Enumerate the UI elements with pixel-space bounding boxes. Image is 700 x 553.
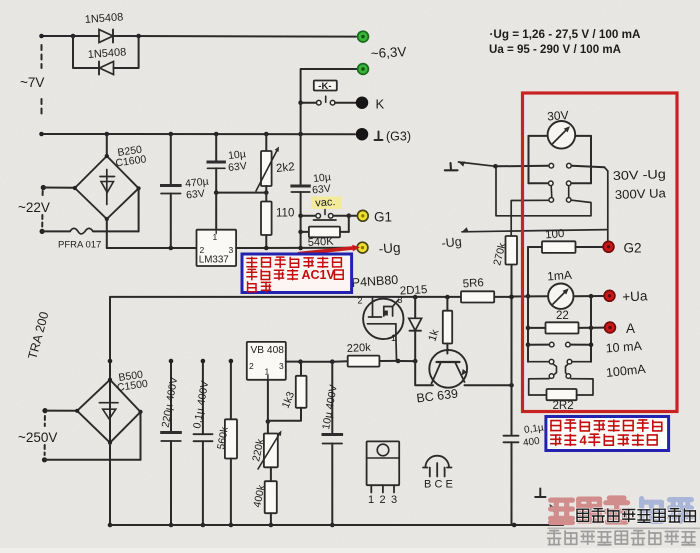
node 1k3 top bbox=[298, 359, 303, 364]
resistor 1k bbox=[446, 297, 448, 311]
wire 10u node to LM337 bbox=[215, 193, 217, 230]
svg-text:2: 2 bbox=[249, 361, 254, 371]
wire HV plus rail bbox=[110, 297, 461, 525]
capacitor C 0,1u hv bbox=[504, 435, 519, 437]
node relay branch bbox=[298, 100, 303, 105]
wire sw1 row3 left bbox=[511, 200, 548, 236]
svg-text:(G3): (G3) bbox=[386, 130, 411, 144]
meter M1 30V box bbox=[529, 135, 548, 137]
terminal A bbox=[605, 322, 616, 333]
svg-text:~22V: ~22V bbox=[18, 200, 50, 215]
capacitor C 10u vac bbox=[300, 134, 302, 185]
ground symbol bottom bbox=[535, 496, 545, 498]
node diode branch left bbox=[71, 34, 76, 39]
svg-text:3: 3 bbox=[229, 245, 234, 255]
red arrow to -Ug bbox=[299, 248, 354, 254]
wire -Ug rail bbox=[236, 247, 355, 249]
capacitor C 220u 400V bbox=[170, 361, 172, 431]
svg-text:-K-: -K- bbox=[318, 81, 331, 92]
node adj bbox=[266, 419, 271, 424]
terminal -Ug bbox=[357, 242, 368, 253]
terminal K bbox=[357, 97, 368, 108]
diode D1 1N5408 bbox=[99, 30, 113, 43]
wire 2R2 right bbox=[571, 379, 593, 395]
node 560k bottom bbox=[229, 523, 234, 528]
svg-text:30V: 30V bbox=[547, 108, 569, 123]
source ~7V dashed lead bbox=[41, 45, 43, 68]
svg-text:LM337: LM337 bbox=[199, 255, 229, 266]
svg-text:~6,3V: ~6,3V bbox=[370, 44, 406, 61]
wire filament top rail bbox=[42, 35, 100, 37]
switch contacts row3 lower bbox=[549, 374, 554, 379]
svg-text:E: E bbox=[446, 479, 453, 491]
switch contacts row2 upper bbox=[549, 181, 554, 186]
node 10u400 bottom bbox=[330, 523, 335, 528]
switch S1 G1 bbox=[301, 215, 316, 217]
potentiometer 220k bbox=[267, 422, 269, 434]
svg-text:63V: 63V bbox=[228, 160, 248, 174]
node col left top bbox=[526, 294, 531, 299]
wire bridge B500 minus bbox=[109, 443, 111, 525]
watermark underline bbox=[548, 527, 700, 529]
ground arrow bbox=[551, 507, 563, 526]
node hv minus left bbox=[108, 523, 113, 528]
svg-text:2: 2 bbox=[200, 245, 205, 255]
wire G1 lead bbox=[349, 215, 356, 217]
svg-text:63V: 63V bbox=[186, 188, 206, 202]
node 110 at -Ug bbox=[264, 246, 269, 251]
node 220u top bbox=[169, 359, 174, 364]
svg-text:10 mA: 10 mA bbox=[605, 339, 643, 356]
resistor R 540K bbox=[301, 231, 309, 233]
wire node to 10u400 bbox=[301, 361, 333, 363]
node 10u400 top bbox=[330, 359, 335, 364]
wire 250V top lead bbox=[45, 410, 77, 412]
svg-text:300V Ua: 300V Ua bbox=[615, 186, 666, 202]
transistor Q2 BC639 bbox=[429, 350, 467, 388]
switch contacts row3 upper bbox=[549, 198, 554, 203]
package BCE pinout bbox=[425, 456, 449, 468]
wire 270k to 5R6 node bbox=[510, 265, 512, 297]
svg-text:AC1V: AC1V bbox=[302, 268, 336, 282]
svg-text:63V: 63V bbox=[312, 183, 332, 197]
wire hv sense column bbox=[511, 265, 513, 435]
node 10u bottom bbox=[214, 190, 219, 195]
svg-text:30V -Ug: 30V -Ug bbox=[613, 167, 667, 183]
wire 2R2 left bbox=[529, 379, 549, 395]
wire hv ground rail bbox=[110, 524, 563, 526]
wire 6.3V lower bbox=[301, 69, 357, 134]
wire 250V bottom lead bbox=[45, 459, 141, 461]
nodes B500 vertices bbox=[108, 378, 112, 382]
svg-text:100: 100 bbox=[545, 228, 565, 242]
resistor 560k bbox=[230, 361, 232, 419]
node 0,1u bottom bbox=[201, 523, 206, 528]
node switch-G1 bbox=[347, 213, 352, 218]
svg-text:~250V: ~250V bbox=[18, 430, 57, 445]
svg-text:G2: G2 bbox=[624, 241, 642, 256]
red frame display section bbox=[523, 93, 678, 412]
wire ground rail G3 bbox=[42, 133, 356, 135]
watermark dianzizhizuo bbox=[576, 509, 578, 521]
svg-text:~7V: ~7V bbox=[20, 75, 44, 90]
annotation box meters bbox=[546, 417, 669, 451]
node filament left bbox=[39, 34, 44, 39]
svg-text:·Ug = 1,26 - 27,5 V / 100 mA: ·Ug = 1,26 - 27,5 V / 100 mA bbox=[490, 27, 641, 41]
switch contacts row2 lower bbox=[549, 359, 554, 364]
resistor 1k3 bbox=[300, 362, 302, 376]
potentiometer 2k2 bbox=[265, 134, 267, 151]
node rail-bridge bbox=[105, 132, 110, 137]
node 2D15 top bbox=[413, 295, 418, 300]
nodes B250 vertices bbox=[105, 154, 109, 158]
node 220u bottom bbox=[169, 523, 174, 528]
node sw2 row1 right bbox=[589, 342, 594, 347]
resistor 400k bbox=[270, 467, 272, 481]
wire sw1 row1 bbox=[496, 165, 549, 168]
node col left row1 bbox=[526, 342, 531, 347]
watermark black text halo bbox=[576, 509, 579, 521]
regulator U1 LM337 bbox=[197, 230, 237, 266]
node hv gnd mid bbox=[512, 523, 517, 528]
svg-text:+Ua: +Ua bbox=[622, 288, 648, 304]
node 1k top bbox=[445, 295, 450, 300]
node 470u minus bbox=[169, 246, 174, 251]
node rail-relay bbox=[298, 132, 303, 137]
resistor 100 bbox=[528, 246, 542, 248]
svg-text:1: 1 bbox=[213, 232, 218, 242]
wire VB408 adj bbox=[267, 380, 269, 422]
svg-text:vac.: vac. bbox=[315, 196, 336, 209]
node 1mA left bbox=[509, 295, 514, 300]
svg-text:PFRA 017: PFRA 017 bbox=[58, 240, 101, 251]
svg-text:3: 3 bbox=[391, 494, 397, 506]
watermark shepin gray bbox=[553, 531, 555, 545]
source ~250V terminals bbox=[42, 408, 47, 413]
resistor 270k bbox=[506, 236, 518, 265]
meter M2 1mA bbox=[548, 284, 573, 309]
regulator U2 VB408 bbox=[247, 342, 286, 380]
wire VB408 out bbox=[286, 361, 301, 363]
label gnd select bbox=[445, 169, 458, 171]
relay coil K bbox=[314, 81, 337, 91]
fuse PFRA017 bbox=[42, 230, 70, 232]
wire meter col right bbox=[590, 296, 592, 362]
terminal G3 bbox=[357, 129, 368, 140]
svg-text:K: K bbox=[376, 97, 385, 112]
svg-text:4: 4 bbox=[580, 433, 588, 448]
svg-text:5R6: 5R6 bbox=[462, 277, 484, 290]
wire diode to emitter bbox=[415, 361, 433, 385]
meter M1 30V bbox=[548, 121, 576, 149]
node vac at -Ug bbox=[298, 246, 303, 251]
node collector bbox=[509, 383, 514, 388]
wire 10u to 2k2 bottom bbox=[216, 192, 266, 194]
node 5R6 right bbox=[509, 295, 514, 300]
svg-text:1mA: 1mA bbox=[547, 268, 573, 284]
node 0,1u top bbox=[201, 359, 206, 364]
node hv rail mid bbox=[108, 359, 113, 364]
node rail-10u bbox=[214, 132, 219, 137]
switch links upper bbox=[550, 186, 553, 198]
wire 22V to bridge bbox=[43, 187, 75, 189]
switch links lower bbox=[553, 364, 557, 375]
svg-text:VB 408: VB 408 bbox=[251, 345, 285, 356]
resistor 22 bbox=[528, 327, 546, 329]
wire gate node bbox=[332, 360, 347, 363]
node gate bbox=[396, 359, 401, 364]
watermark yidituo red bbox=[551, 498, 573, 503]
wire 1mA row bbox=[511, 296, 513, 298]
resistor 5R6 bbox=[461, 291, 494, 302]
capacitor C 0,1u 400V bbox=[202, 361, 204, 434]
capacitor C 10u 400V bbox=[331, 362, 333, 433]
switch lever gnd bbox=[459, 162, 466, 167]
svg-text:110: 110 bbox=[276, 208, 294, 220]
svg-text:2: 2 bbox=[380, 494, 386, 506]
diode D2 1N5408 bbox=[100, 62, 114, 75]
node rail-7V bbox=[39, 132, 44, 137]
transistor Q1 P4NB80 MOSFET bbox=[363, 299, 403, 339]
svg-text:-Ug: -Ug bbox=[441, 234, 463, 250]
svg-text:540K: 540K bbox=[308, 236, 335, 249]
svg-text:Ua = 95 - 290 V / 100 mA: Ua = 95 - 290 V / 100 mA bbox=[489, 42, 621, 56]
resistor 2R2 bbox=[547, 389, 577, 400]
source ~22V terminals bbox=[41, 185, 46, 190]
svg-text:3: 3 bbox=[398, 295, 403, 305]
wire sw1 row3 right bbox=[496, 166, 591, 216]
resistor 220k gate bbox=[348, 356, 380, 367]
diode D5 2D15 bbox=[414, 297, 416, 318]
wire bridge minus bbox=[106, 219, 108, 248]
svg-text:G1: G1 bbox=[374, 210, 392, 225]
node gnd lever bbox=[493, 164, 498, 169]
capacitor C 10u63V bbox=[215, 134, 217, 161]
node rail-470u bbox=[169, 132, 174, 137]
package TO-220 outline bbox=[367, 441, 400, 485]
switch relay contacts bbox=[301, 102, 316, 104]
svg-text:220k: 220k bbox=[347, 342, 372, 355]
wire gate to diode bbox=[398, 360, 415, 362]
switch lever -Ug bbox=[462, 227, 469, 232]
annotation box AC1V bbox=[242, 254, 352, 293]
svg-text:B: B bbox=[424, 479, 431, 491]
node col left 22 bbox=[526, 326, 531, 331]
node 540K tap bbox=[298, 230, 303, 235]
bridge rectifier B250 bbox=[106, 134, 108, 156]
switch contacts row1 upper bbox=[549, 163, 554, 168]
highlight vac bbox=[311, 197, 342, 210]
wire collector bbox=[465, 384, 512, 386]
svg-text:22: 22 bbox=[556, 310, 569, 322]
svg-text:2: 2 bbox=[358, 296, 363, 306]
node vac-switch bbox=[298, 214, 303, 219]
node 2D15 bottom bbox=[413, 359, 418, 364]
resistor 110 bbox=[265, 193, 267, 202]
wire sw2 row1 bbox=[528, 344, 549, 346]
terminal +Ua bbox=[604, 290, 615, 301]
terminal G2 bbox=[603, 241, 614, 252]
label G3 bbox=[375, 139, 383, 141]
node 22 right bbox=[589, 326, 594, 331]
svg-text:-Ug: -Ug bbox=[378, 240, 401, 256]
node 400k bottom bbox=[269, 523, 274, 528]
svg-text:1: 1 bbox=[265, 367, 270, 377]
node 2k2 bottom bbox=[264, 190, 269, 195]
wire diode D2 branch bbox=[73, 36, 98, 68]
bridge rectifier B500 bbox=[77, 380, 140, 443]
terminal G1 bbox=[357, 210, 368, 221]
capacitor C 470u bbox=[170, 134, 172, 184]
wire meter col left bbox=[527, 247, 529, 362]
node 560k top bbox=[229, 359, 234, 364]
svg-text:2k2: 2k2 bbox=[276, 161, 296, 175]
svg-text:1: 1 bbox=[391, 333, 396, 343]
node diode branch right bbox=[136, 34, 141, 39]
node 1mA right bbox=[589, 294, 594, 299]
node rail-2k2 bbox=[264, 132, 269, 137]
svg-text:3: 3 bbox=[279, 361, 284, 371]
svg-text:1: 1 bbox=[368, 494, 374, 506]
switch contacts row1 lower bbox=[549, 342, 554, 347]
wire sw2 row2 corners bbox=[528, 361, 549, 363]
terminal 6.3V upper bbox=[358, 31, 369, 42]
svg-text:C: C bbox=[435, 479, 443, 491]
svg-text:A: A bbox=[626, 321, 635, 336]
terminal 6.3V lower bbox=[358, 64, 369, 75]
